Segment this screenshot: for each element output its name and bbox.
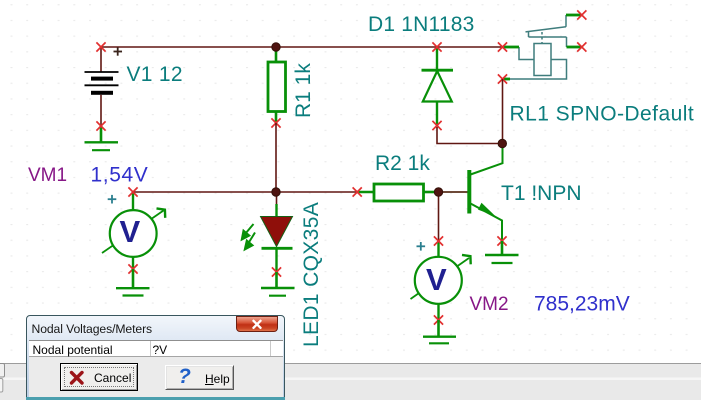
svg-text:V: V [426, 262, 447, 297]
junction node D1 / relay coil / T1 collector [498, 139, 506, 147]
svg-text:R2 1k: R2 1k [375, 152, 430, 175]
VM1 plus [108, 195, 117, 204]
junction node R2 right / VM2 / T1 base [434, 188, 442, 196]
svg-text:VM2: VM2 [470, 294, 509, 315]
LED1 [261, 192, 293, 272]
junction node R1 bottom / LED / VM1 rail [272, 188, 280, 196]
wire D1 bottom to collector node [437, 127, 503, 144]
voltmeter VM2 [411, 192, 471, 320]
scrollbar corner buttons bottom-left [0, 364, 5, 378]
table row [29, 340, 283, 357]
transistor T1 collector lead [471, 144, 503, 175]
svg-text:LED1 CQX35A: LED1 CQX35A [300, 202, 323, 347]
node plus sign at battery top [114, 47, 123, 55]
relay RL1 switch arm and contact [526, 15, 567, 47]
ground below T1 emitter [485, 241, 519, 263]
relay RL1 pin stubs [503, 15, 582, 79]
grey client area [29, 357, 283, 397]
pin x VM1 bottom [128, 264, 137, 273]
close button [236, 316, 278, 332]
svg-text:V1 12: V1 12 [127, 63, 183, 86]
relay RL1 coil [510, 44, 567, 80]
svg-text:RL1 SPNO-Default: RL1 SPNO-Default [510, 103, 695, 126]
pin x D1 top [432, 42, 441, 51]
Cancel button [60, 363, 138, 391]
pin x R2 left [353, 187, 362, 196]
pin x D1 bottom [432, 121, 441, 130]
pin x VM2 bottom [434, 315, 443, 324]
pin x RL1 coil left [498, 42, 507, 51]
T1 emitter arrow [478, 203, 496, 216]
pin x RL1 coil bottom [498, 74, 507, 83]
wire mid rail [133, 191, 357, 193]
resistor R1 [268, 48, 286, 123]
pin x battery top [96, 42, 105, 51]
teal window bottom edge [26, 397, 285, 400]
LED light arrows [242, 224, 255, 250]
wire top rail [101, 46, 503, 48]
svg-text:VM1: VM1 [28, 165, 67, 186]
wire relay coil to collector node [502, 79, 504, 144]
battery V1 [85, 72, 119, 95]
voltmeter VM1 [102, 192, 165, 269]
svg-text:1,54V: 1,54V [91, 164, 149, 187]
svg-text:785,23mV: 785,23mV [534, 293, 630, 316]
svg-text:D1 1N1183: D1 1N1183 [368, 13, 474, 36]
junction node R1 top on +12V rail [272, 43, 280, 51]
pin x T1 emitter [497, 236, 506, 245]
bottom status band [0, 363, 701, 400]
diode D1 [422, 48, 454, 126]
wire battery top stem [100, 47, 102, 72]
svg-text:V: V [120, 214, 141, 249]
pin x R1 bottom [271, 118, 280, 127]
ground below VM1 [116, 269, 150, 296]
pin x battery bottom [96, 121, 105, 130]
pin x RL1 contact top [577, 10, 586, 19]
transistor T1 base bar [467, 170, 471, 214]
wire R1 bottom to mid rail [275, 123, 277, 192]
pin x RL1 contact bottom [577, 42, 586, 51]
ground below battery [85, 126, 119, 150]
svg-text:T1 !NPN: T1 !NPN [501, 182, 582, 205]
resistor R2 [357, 184, 439, 201]
Help button [165, 365, 234, 390]
dialog Nodal Voltages/Meters [26, 315, 285, 400]
pin x VM1 top [128, 187, 137, 196]
ground below VM2 [423, 320, 456, 343]
pin x VM2 top [434, 236, 443, 245]
wire battery bottom stem [100, 95, 102, 126]
ground below LED [261, 272, 295, 296]
VM2 plus [417, 242, 426, 251]
pin x LED bottom [272, 267, 281, 276]
wire R2-to-base [439, 191, 468, 193]
relay RL1 actuator dashed link [541, 32, 543, 44]
svg-text:R1 1k: R1 1k [292, 63, 315, 118]
transistor T1 emitter lead [471, 204, 503, 242]
title text [32, 322, 153, 336]
